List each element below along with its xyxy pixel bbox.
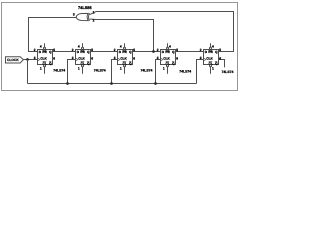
svg-text:5: 5 <box>53 48 55 52</box>
svg-text:6: 6 <box>133 56 135 60</box>
svg-text:3: 3 <box>34 56 36 60</box>
wire Q3 net tap to XOR input pin 2 <box>90 19 154 52</box>
XOR gate U1 74LS86 <box>76 13 89 21</box>
svg-text:5: 5 <box>176 48 178 52</box>
svg-text:2: 2 <box>34 48 36 52</box>
svg-text:1: 1 <box>120 66 122 70</box>
svg-text:6: 6 <box>219 56 221 60</box>
flip-flop U5 74LS74 <box>161 50 176 66</box>
wire CLOCK to FF1 CLK pin 3 <box>23 59 37 61</box>
svg-text:PR: PR <box>80 50 85 54</box>
pin PRE bubble and stub U6 <box>209 43 211 49</box>
svg-text:3: 3 <box>72 56 74 60</box>
svg-text:4: 4 <box>169 44 171 48</box>
wire Q4 to D5 <box>176 51 204 53</box>
svg-text:6: 6 <box>176 56 178 60</box>
svg-text:2: 2 <box>114 48 116 52</box>
wire clock riser to FF5 CLK <box>197 60 204 84</box>
svg-text:5: 5 <box>133 48 135 52</box>
pin PRE bubble and stub U4 <box>123 43 125 49</box>
svg-text:6: 6 <box>91 56 93 60</box>
svg-text:3: 3 <box>157 56 159 60</box>
svg-text:6: 6 <box>53 56 55 60</box>
svg-text:CLK: CLK <box>40 56 47 60</box>
wire Q1 to D2 <box>53 51 76 53</box>
wire Q3 to D4 <box>133 51 161 53</box>
svg-text:2: 2 <box>93 19 95 23</box>
svg-text:74LS74: 74LS74 <box>53 68 65 72</box>
svg-text:2: 2 <box>157 48 159 52</box>
junction tap dot on Q3 net <box>152 50 155 53</box>
pin CLR bubble and stub U5 <box>166 65 168 74</box>
svg-text:5: 5 <box>91 48 93 52</box>
wire clock riser to FF2 CLK <box>68 60 76 84</box>
pin PRE bubble and stub U5 <box>166 43 168 49</box>
svg-text:1: 1 <box>78 66 80 70</box>
CLOCK input flag <box>6 57 24 63</box>
svg-text:1: 1 <box>163 66 165 70</box>
svg-text:4: 4 <box>212 44 214 48</box>
wire Q2 to D3 <box>91 51 118 53</box>
svg-text:CLK: CLK <box>206 56 213 60</box>
wire Q5bar output stub <box>219 60 225 68</box>
pin PRE bubble and stub U3 <box>81 43 83 49</box>
svg-text:5: 5 <box>219 48 221 52</box>
svg-text:74LS74: 74LS74 <box>94 68 106 72</box>
pin CLR bubble and stub U6 <box>209 65 211 74</box>
svg-text:74LS74: 74LS74 <box>141 69 153 73</box>
pin CLR bubble and stub U3 <box>81 65 83 74</box>
wire XOR output pin 3 to D1 <box>29 17 77 51</box>
wire clock riser to FF4 CLK <box>156 60 161 84</box>
svg-text:PR: PR <box>208 50 213 54</box>
svg-text:2: 2 <box>72 48 74 52</box>
junction clock node dot <box>26 58 29 61</box>
svg-text:4: 4 <box>40 44 42 48</box>
svg-text:74LS74: 74LS74 <box>222 70 234 74</box>
wire clock drop to bus <box>27 60 29 84</box>
wire clock riser to FF3 CLK <box>112 60 118 84</box>
svg-text:3: 3 <box>114 56 116 60</box>
svg-text:PR: PR <box>42 50 47 54</box>
svg-text:4: 4 <box>78 44 80 48</box>
junction bus dot at FF3 riser <box>110 82 113 85</box>
junction bus dot at FF2 riser <box>66 82 69 85</box>
svg-text:1: 1 <box>212 66 214 70</box>
flip-flop U4 74LS74 <box>118 50 133 66</box>
wire Q5 to XOR input pin 1 <box>90 12 234 52</box>
svg-text:74LS86: 74LS86 <box>78 5 92 10</box>
flip-flop U6 74LS74 <box>204 50 219 66</box>
svg-text:CLK: CLK <box>120 56 127 60</box>
svg-text:3: 3 <box>73 12 75 16</box>
border frame <box>2 3 238 91</box>
pin CLR bubble and stub U4 <box>123 65 125 74</box>
svg-text:4: 4 <box>120 44 122 48</box>
svg-text:PR: PR <box>122 50 127 54</box>
wire clock bus along bottom <box>28 83 197 85</box>
svg-text:74LS74: 74LS74 <box>179 69 191 73</box>
svg-text:CLK: CLK <box>78 56 85 60</box>
flip-flop U3 74LS74 <box>76 50 91 66</box>
svg-text:1: 1 <box>93 10 95 14</box>
pin PRE bubble and stub U2 <box>43 43 45 49</box>
junction bus dot at FF4 riser <box>154 82 157 85</box>
svg-text:2: 2 <box>200 48 202 52</box>
svg-text:1: 1 <box>40 66 42 70</box>
pin CLR bubble and stub U2 <box>43 65 45 74</box>
svg-text:CLOCK: CLOCK <box>7 58 19 62</box>
svg-text:PR: PR <box>165 50 170 54</box>
flip-flop U2 74LS74 <box>38 50 53 66</box>
svg-text:CLK: CLK <box>163 56 170 60</box>
svg-text:3: 3 <box>200 56 202 60</box>
